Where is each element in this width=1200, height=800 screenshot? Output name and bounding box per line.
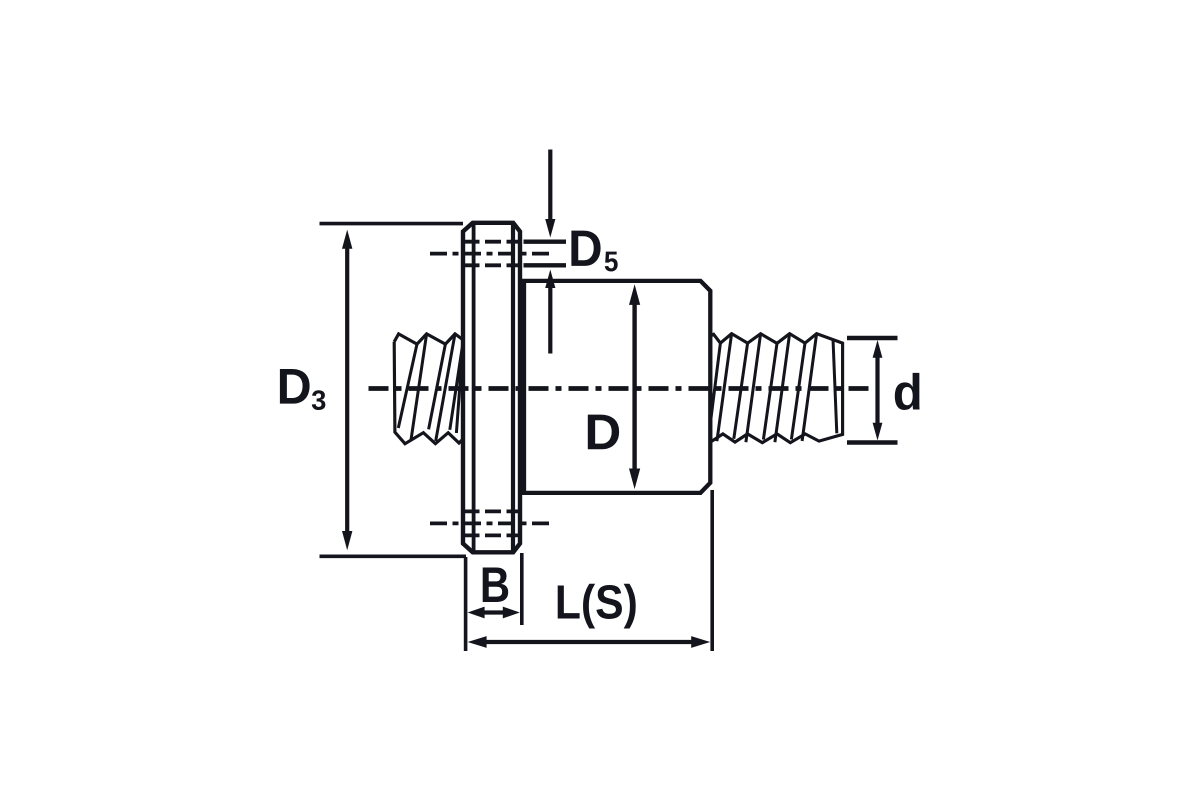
bolt hole top axis centerline <box>430 252 550 256</box>
screw shaft right segment outline <box>711 334 843 443</box>
dimension d top arrowhead <box>873 340 883 358</box>
screw shaft left segment outline <box>394 334 463 444</box>
label D5_D <box>571 231 600 266</box>
label B_B <box>483 568 508 602</box>
dimension B left arrowhead <box>468 607 485 619</box>
dimension D5 lower arrow line <box>548 287 552 354</box>
bolt hole bottom hidden line lower <box>464 534 521 538</box>
label D3_3 <box>312 390 326 410</box>
screw shaft right thread helix lines <box>711 334 837 443</box>
dimension D arrow line <box>632 303 636 470</box>
dimension d bottom bar <box>847 440 898 444</box>
dimension d top bar <box>847 336 898 340</box>
bolt hole top hidden line lower <box>464 263 521 267</box>
dimension LS arrow line <box>484 640 694 644</box>
dimension d bottom arrowhead <box>873 423 883 441</box>
dimension D5 upper arrow line <box>548 150 552 221</box>
dimension d arrow line <box>875 356 879 425</box>
flange chamfer edge right <box>511 224 515 551</box>
screw shaft left thread helix lines <box>398 334 463 441</box>
dimension D3 top arrowhead <box>342 230 352 249</box>
dimension D5 lower arrowhead <box>545 270 555 289</box>
label LS <box>558 585 580 618</box>
dimension LS right arrowhead <box>691 636 710 648</box>
centerline main axis <box>369 386 872 391</box>
dimension D3 bottom arrowhead <box>342 531 352 550</box>
dimension B extension line left <box>464 557 468 651</box>
dimension D3 arrow line <box>345 247 349 532</box>
dimension LS extension line right <box>710 490 714 651</box>
dimension D3 extension line bottom <box>320 554 467 558</box>
dimension B extension line right <box>520 553 524 625</box>
dimension D top arrowhead <box>629 284 640 305</box>
flange chamfer edge left <box>472 224 476 551</box>
dimension B arrow line <box>481 610 506 614</box>
dimension D5 bottom bar <box>524 263 567 267</box>
bolt hole bottom hidden line upper <box>464 509 521 513</box>
dimension D5 top bar <box>524 239 567 243</box>
label d_d <box>895 373 920 410</box>
label D3_D <box>280 369 310 404</box>
label D5_5 <box>605 252 618 272</box>
label D_D <box>588 415 619 450</box>
nut body outline <box>524 281 710 493</box>
bolt hole bottom axis centerline <box>430 522 550 526</box>
flange outline <box>463 223 520 553</box>
bolt hole top hidden line upper <box>464 240 521 244</box>
dimension B right arrowhead <box>503 607 520 619</box>
dimension D5 upper arrowhead <box>545 219 555 238</box>
dimension LS left arrowhead <box>468 636 487 648</box>
dimension D3 extension line top <box>320 222 464 226</box>
dimension D bottom arrowhead <box>629 469 640 490</box>
